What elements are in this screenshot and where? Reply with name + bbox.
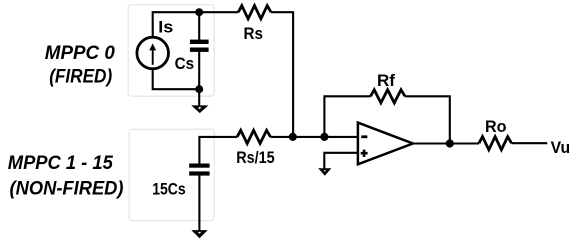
capacitor 15Cs	[189, 164, 209, 176]
label Rs/15	[236, 149, 275, 167]
resistor Rs	[238, 6, 271, 19]
wire Cs bottom lead	[198, 52, 200, 89]
label Vu	[551, 139, 571, 157]
resistor Rf	[371, 90, 406, 103]
svg-text:Rs/15: Rs/15	[236, 149, 275, 167]
wire op-amp non-inverting input to ground	[324, 153, 359, 169]
svg-text:(FIRED): (FIRED)	[49, 66, 112, 87]
node Rf join on summing rail	[320, 133, 328, 141]
ground at non-inverting input	[318, 168, 331, 176]
label (NON-FIRED)	[10, 178, 124, 199]
svg-text:MPPC 0: MPPC 0	[45, 43, 115, 64]
ground under MPPC 0	[191, 89, 208, 113]
svg-text:Is: Is	[158, 19, 173, 37]
label (FIRED)	[49, 66, 112, 87]
wire Rf left leg	[324, 96, 370, 137]
wire Ro to Vu	[512, 142, 548, 144]
wire top rail from current source to Rs	[153, 12, 239, 36]
box MPPC 1-15 cell outline	[129, 129, 214, 220]
wire Cs top lead	[198, 12, 200, 40]
node output junction	[446, 139, 454, 147]
label MPPC 1 - 15	[8, 153, 113, 174]
label Is	[158, 19, 173, 37]
wire 15Cs riser and rail to Rs/15	[199, 137, 237, 164]
wire from Rs down to summing rail	[271, 12, 293, 137]
svg-text:Vu: Vu	[551, 139, 571, 157]
svg-text:MPPC 1 - 15: MPPC 1 - 15	[8, 153, 113, 174]
label Ro	[485, 118, 507, 136]
svg-text:15Cs: 15Cs	[152, 181, 186, 199]
resistor Rs/15	[237, 130, 270, 143]
box MPPC 0 cell outline	[128, 5, 214, 97]
svg-text:Ro: Ro	[485, 118, 507, 136]
node Rs join on summing rail	[289, 133, 297, 141]
wire op-amp output	[413, 142, 479, 144]
ground under 15Cs	[191, 175, 207, 238]
op-amp U1	[358, 123, 413, 165]
label Rs	[244, 25, 264, 43]
svg-text:(NON-FIRED): (NON-FIRED)	[10, 178, 124, 199]
label 15Cs	[152, 181, 186, 199]
label MPPC 0	[45, 43, 115, 64]
svg-text:Cs: Cs	[175, 55, 195, 73]
wire summing rail into op-amp inverting input	[271, 136, 360, 138]
node bottom junction of MPPC 0	[195, 85, 203, 93]
svg-text:Rs: Rs	[244, 25, 264, 43]
svg-text:Rf: Rf	[377, 72, 396, 90]
current source Is	[137, 37, 169, 69]
label Cs	[175, 55, 195, 73]
capacitor Cs	[190, 40, 209, 52]
node top junction	[195, 8, 203, 16]
wire Rf right leg to output node	[405, 96, 450, 143]
wire current source bottom to node	[153, 70, 200, 90]
label Rf	[377, 72, 396, 90]
resistor Ro	[479, 137, 512, 150]
